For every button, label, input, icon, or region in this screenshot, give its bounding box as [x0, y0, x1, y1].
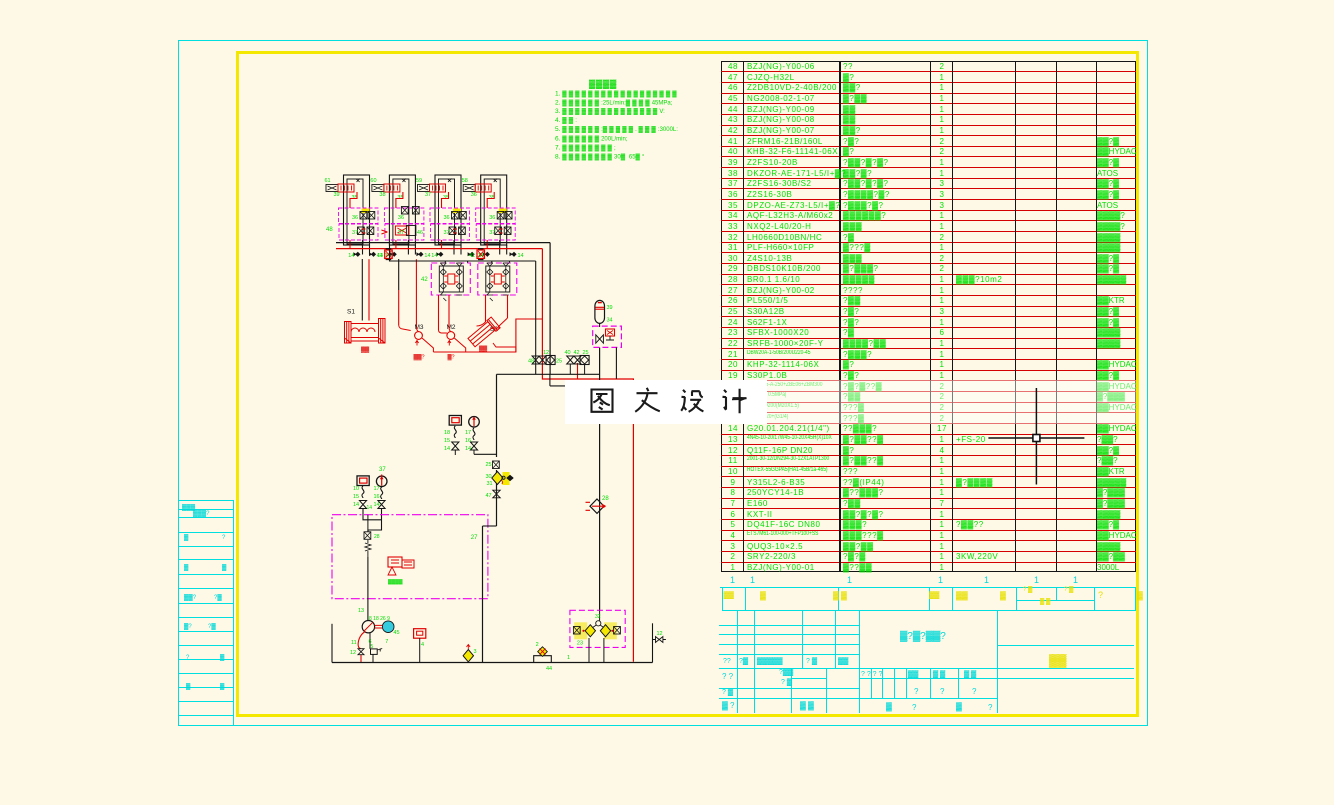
left binding-strip column vertical line: [233, 500, 234, 725]
yellow highlight 4: [499, 209, 507, 214]
left filter pair: [573, 627, 580, 635]
table black column dividers: [743, 61, 744, 573]
pilot line (red) assembly 2: [396, 192, 403, 208]
air breather 3: [463, 650, 473, 662]
proportional valve 3 (top, red): [418, 185, 430, 192]
assembly 4 drop lines: [499, 240, 501, 255]
title block texts: [723, 658, 731, 665]
level gauge 4 (red): [414, 629, 426, 639]
table row texts (green): [725, 62, 741, 71]
black transverse line: [497, 373, 600, 375]
red mini valves between groups: [386, 249, 392, 260]
pilot check valve box 42: [478, 263, 517, 295]
return drop inside box: [483, 525, 497, 527]
pilot check valve box 42: [431, 263, 470, 295]
main pump: [362, 621, 374, 633]
main drain line (left): [496, 374, 498, 457]
magenta valve boxes assembly 4: [476, 208, 516, 224]
accumulator safety valve box: [593, 326, 622, 347]
return filter 30 (yellow diamond): [503, 472, 510, 485]
magenta valve boxes assembly 3: [430, 208, 470, 224]
valve with spring in box: [364, 532, 371, 540]
quick couplings row: [353, 252, 360, 257]
line from box to pump: [367, 557, 369, 621]
header yellow labels: [724, 592, 734, 599]
drop lines to actuators: [361, 259, 363, 321]
heater unit (red) in box: [388, 557, 402, 567]
outer cyan drawing frame: [178, 40, 1148, 726]
pilot line (red) assembly 3: [442, 192, 449, 208]
pilot line (red) assembly 1: [350, 192, 357, 208]
left column cell labels: [182, 505, 195, 511]
circulation/cooling unit box (27): [332, 515, 488, 599]
assembly 2 drop lines: [407, 240, 409, 255]
title block cyan grid: [719, 625, 859, 626]
red return bus (top): [336, 248, 542, 250]
right filter pair: [600, 625, 610, 637]
shutoff valve 47 (vertical): [493, 490, 500, 498]
relief valve 28: [590, 499, 604, 513]
magenta valve boxes assembly 2: [384, 208, 424, 224]
check/solenoid valves in boxes 1: [360, 212, 367, 220]
black pressure bus (top): [336, 242, 550, 244]
valve assembly group 3 outer frame: [435, 175, 461, 245]
filler breather 44: [534, 656, 552, 663]
red lines from boxes to motors: [439, 295, 508, 330]
shutoff valve 25: [493, 461, 500, 469]
pilot line (red) assembly 4: [487, 192, 494, 208]
yellow highlight 1: [362, 209, 370, 214]
red main line down: [542, 249, 633, 662]
parts list table outer black border: [721, 61, 1137, 573]
check/solenoid valves in boxes 4: [497, 212, 504, 220]
electric motor (cyan): [382, 621, 394, 633]
table red row separator lines: [721, 71, 1137, 72]
table header row cyan cell borders: [722, 587, 723, 611]
hand pump 5: [371, 649, 378, 655]
proportional valve 1 (top, red): [326, 185, 338, 192]
assembly 1 drop lines: [362, 240, 364, 255]
cyan column-number row under table: [730, 575, 735, 585]
watermark arrow mark: [728, 392, 752, 404]
valve assembly group 4 outer frame: [481, 175, 507, 245]
accumulator 33/34: [595, 300, 605, 323]
inner yellow sheet border: [236, 51, 1139, 717]
magenta valve boxes assembly 1: [339, 208, 379, 224]
return filter group box: [570, 610, 625, 647]
tank manifold line: [332, 662, 653, 664]
pressure gauge set (18/15/14): [449, 416, 461, 426]
valve assembly group 1 outer frame: [344, 175, 370, 245]
proportional valve 2 (top, red): [372, 185, 384, 192]
flexible hose (red): [358, 632, 365, 649]
manifold valve row (y 360): [535, 261, 537, 374]
check/solenoid valves in boxes 2: [401, 207, 408, 215]
proportional valve 4 (top, red): [463, 185, 475, 192]
accumulator line down: [599, 347, 601, 610]
watermark white band: [565, 380, 767, 424]
assembly 3 drop lines: [453, 240, 455, 255]
junction circle: [596, 621, 601, 626]
valve assembly group 2 outer frame: [389, 175, 415, 245]
hose shutoff valve (vertical): [358, 649, 364, 655]
yellow highlight 3: [453, 209, 461, 214]
drain valve 12: [652, 623, 654, 662]
pressure gauge set (37/16/14): [357, 476, 369, 486]
red collector piping under actuators: [433, 319, 542, 352]
check/solenoid valves in boxes 3: [452, 212, 459, 220]
